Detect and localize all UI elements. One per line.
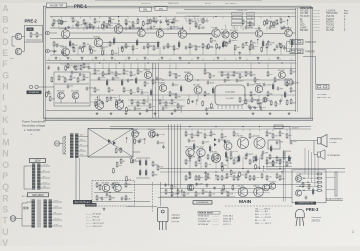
- svg-text:220: 220: [241, 175, 244, 177]
- resistor R128: [267, 91, 269, 97]
- ground symbol top band 9: [179, 57, 182, 60]
- junction node main 5: [242, 168, 243, 169]
- wire T1 secondary tap 1: [78, 136, 86, 138]
- capacitor C2: [86, 25, 89, 29]
- resistor R507: [102, 23, 104, 29]
- ground symbol regulator: [103, 208, 106, 211]
- svg-text:Secondary voltage: Secondary voltage: [22, 123, 46, 127]
- resistor R116: [274, 77, 276, 83]
- resistor R145: [99, 184, 101, 190]
- svg-text:AC+ —— OL 2: AC+ —— OL 2: [255, 213, 270, 216]
- transistor Q5: [138, 29, 146, 37]
- junction mainB 95: [215, 175, 216, 176]
- resistor R307: [308, 184, 310, 190]
- resistor R103: [115, 71, 117, 77]
- connector REC OUT: [316, 85, 329, 90]
- svg-text:P: P: [2, 171, 8, 181]
- capacitor C130: [157, 140, 160, 144]
- resistor R527: [210, 37, 212, 43]
- wire mid drop 9: [152, 63, 154, 70]
- transistor Q8: [212, 29, 220, 37]
- wire mid link 1: [128, 99, 185, 101]
- wire main drop mid 3: [215, 157, 217, 169]
- capacitor C261: [101, 101, 104, 105]
- wire main drop 5: [210, 129, 212, 132]
- svg-text:U: U: [2, 227, 8, 237]
- power transistor Q58: [254, 187, 264, 197]
- transistor Q12: [231, 32, 238, 39]
- svg-text:———: ———: [313, 25, 321, 27]
- svg-text:47/25: 47/25: [249, 154, 254, 156]
- capacitor C67: [247, 82, 250, 86]
- wire vertical drop 22: [195, 25, 197, 29]
- resistor R31: [147, 43, 149, 49]
- svg-text:———: ———: [313, 22, 321, 24]
- wire mid drop 3: [108, 63, 110, 70]
- resistor R409: [253, 156, 255, 162]
- wire mainB stub 101: [263, 166, 265, 171]
- svg-text:PARTS NOTE: PARTS NOTE: [199, 212, 213, 215]
- wire signal net 9: [220, 32, 255, 34]
- resistor R157: [177, 103, 179, 109]
- svg-text:330: 330: [223, 75, 226, 77]
- svg-text:330: 330: [292, 91, 295, 93]
- capacitor C68: [263, 82, 266, 86]
- capacitor C105: [236, 78, 239, 82]
- electrolytic capacitor C140: [193, 143, 195, 151]
- resistor R227: [249, 175, 251, 181]
- capacitor C129: [139, 138, 142, 142]
- capacitor C125: [262, 150, 265, 154]
- wire mid rail 2: [90, 68, 296, 70]
- svg-text:10/16: 10/16: [74, 72, 79, 74]
- svg-text:CB —— 250V.4: CB —— 250V.4: [255, 208, 271, 210]
- svg-text:DRIVER BD: DRIVER BD: [197, 202, 209, 204]
- svg-text:PRE-3: PRE-3: [306, 207, 319, 212]
- svg-text:0.01: 0.01: [227, 80, 231, 82]
- wire T2 primary a: [28, 165, 32, 167]
- capacitor C127: [283, 150, 286, 154]
- wire mid drop 5: [123, 63, 125, 70]
- ground symbol top band 5: [111, 57, 114, 60]
- wire EQ board rail: [55, 83, 89, 85]
- ground symbol mid 6: [171, 112, 174, 115]
- resistor R16: [189, 19, 191, 25]
- wire mid drop low 1: [99, 95, 101, 101]
- svg-text:EQ AMP: EQ AMP: [226, 97, 235, 100]
- wire vertical bus 4: [177, 124, 179, 197]
- junction botA 113: [181, 190, 182, 191]
- resistor R152: [143, 99, 145, 105]
- capacitor C204: [75, 23, 78, 27]
- capacitor C11: [56, 43, 59, 47]
- capacitor C290: [156, 133, 159, 137]
- resistor R350: [165, 189, 167, 195]
- ground symbol mainA 87: [138, 140, 141, 143]
- wire to ground bus 8: [147, 47, 149, 55]
- electrolytic capacitor C35: [222, 41, 224, 49]
- svg-text:560: 560: [173, 102, 176, 104]
- transistor Q53 driver: [211, 153, 220, 162]
- plug P1: [54, 141, 59, 146]
- wire main drop mid 1: [189, 157, 191, 169]
- svg-text:4.7/50: 4.7/50: [233, 151, 238, 153]
- resistor R303: [316, 185, 322, 187]
- wire tape link: [286, 42, 288, 52]
- speaker A icon: [318, 135, 328, 148]
- wire selector lead 4: [247, 26, 249, 29]
- resistor R108: [152, 79, 154, 85]
- resistor R30: [132, 45, 134, 51]
- resistor R100: [94, 69, 96, 75]
- svg-text:2SC1000: 2SC1000: [101, 183, 109, 185]
- resistor R1: [53, 19, 55, 25]
- svg-text:———: ———: [313, 10, 321, 12]
- transistor Q28: [279, 72, 286, 79]
- svg-text:120: 120: [235, 134, 238, 136]
- wire vertical drop 23: [202, 26, 204, 30]
- wire mid drop 7: [137, 63, 139, 70]
- resistor R152: [152, 171, 154, 177]
- svg-text:POWER SW: POWER SW: [198, 221, 211, 223]
- capacitor C224: [165, 19, 168, 23]
- label box SPEAKER: [27, 91, 42, 95]
- capacitor C123: [230, 150, 233, 154]
- svg-text:100: 100: [255, 159, 258, 161]
- wire to speaker B: [314, 141, 318, 155]
- wire mid drop low 6: [197, 95, 199, 101]
- svg-text:0.22: 0.22: [149, 110, 153, 112]
- wire main drop 13: [279, 129, 281, 132]
- resistor R218: [266, 159, 268, 165]
- svg-text:D: D: [2, 37, 8, 47]
- svg-text:2SA733: 2SA733: [326, 15, 335, 18]
- svg-text:3: 3: [352, 230, 354, 234]
- wire to ground bus 11: [189, 47, 191, 55]
- svg-text:2SC945: 2SC945: [236, 136, 243, 138]
- resistor R10: [125, 19, 127, 25]
- wire to ground bus 16: [266, 47, 268, 55]
- junction node top 9: [288, 16, 289, 17]
- wire to ground bus 3: [77, 47, 79, 55]
- resistor R407: [237, 156, 239, 162]
- resistor R414: [189, 173, 191, 179]
- svg-text:V: V: [2, 238, 8, 246]
- wire vertical drop 33: [288, 27, 290, 31]
- capacitor C128: [290, 140, 293, 144]
- wire main lower rail 3: [160, 196, 235, 198]
- ground symbol top band 4: [95, 57, 98, 60]
- transistor Q24: [115, 101, 124, 110]
- resistor R530: [223, 40, 225, 46]
- svg-text:10/16: 10/16: [210, 82, 215, 84]
- wire mid rail upper: [46, 62, 296, 64]
- svg-text:0.01: 0.01: [70, 86, 74, 88]
- svg-text:100/10: 100/10: [173, 27, 179, 29]
- wire midC stub 67: [180, 108, 182, 113]
- svg-text:100/10: 100/10: [146, 46, 152, 48]
- resistor R201: [30, 32, 32, 38]
- svg-text:2SC458: 2SC458: [131, 129, 138, 131]
- resistor R117: [286, 81, 288, 87]
- junction midC 67: [181, 107, 182, 108]
- svg-text:PRE-2: PRE-2: [25, 18, 38, 23]
- svg-text:C: C: [2, 26, 9, 36]
- transistor Q7: [178, 30, 186, 38]
- svg-text:390: 390: [292, 72, 295, 74]
- resistor R217: [249, 159, 251, 165]
- wire vertical drop 7: [89, 25, 91, 29]
- resistor R212: [185, 159, 187, 165]
- svg-text:SPEAKER: SPEAKER: [29, 91, 40, 94]
- wire vertical drop 25: [225, 25, 227, 29]
- resistor R211: [286, 133, 288, 139]
- wire main drop 12: [272, 129, 274, 132]
- transistor Q9: [222, 31, 229, 38]
- svg-text:R.FUSE: R.FUSE: [300, 10, 309, 12]
- grid row letters A-V: [2, 3, 9, 248]
- svg-text:10/16: 10/16: [89, 88, 94, 90]
- transistor Q30: [159, 84, 166, 91]
- resistor R598: [239, 171, 241, 177]
- lead ticks on ground bus: [49, 58, 291, 60]
- svg-text:SPK SELECT: SPK SELECT: [225, 3, 238, 5]
- IC U1 pins: [218, 105, 242, 109]
- svg-text:120: 120: [145, 24, 148, 26]
- wire topA stub 9: [118, 21, 120, 26]
- resistor R582: [290, 99, 292, 105]
- resistor R141: [125, 182, 127, 188]
- svg-text:115V: 115V: [34, 159, 40, 163]
- ground symbol top band 3: [81, 57, 84, 60]
- capacitor C100: [134, 106, 137, 110]
- resistor R548: [80, 64, 82, 70]
- resistor R421: [253, 175, 255, 181]
- svg-text:L: L: [2, 126, 8, 136]
- resistor R586: [134, 138, 136, 144]
- transformer T1 core: [70, 134, 78, 159]
- resistor R163: [251, 97, 253, 103]
- junction midC 70: [196, 99, 197, 100]
- svg-text:220P: 220P: [198, 183, 203, 185]
- junction pre3 row 2: [303, 177, 304, 178]
- wire vertical drop 5: [77, 26, 79, 30]
- wire main drop mid 8: [279, 157, 281, 169]
- transistor Q6: [156, 30, 164, 38]
- ground symbol mid 2: [110, 112, 113, 115]
- capacitor C161: [305, 195, 308, 199]
- lead ticks on B+ rail: [52, 17, 290, 19]
- resistor R578: [270, 100, 272, 106]
- wire vertical drop 1: [53, 25, 55, 29]
- transistor Q42 regulator: [114, 184, 122, 192]
- connector speaker impedance: [29, 85, 38, 88]
- resistor R146: [112, 182, 114, 188]
- capacitor C280: [279, 99, 282, 103]
- wire vertical drop 32: [280, 26, 282, 30]
- wire main drop 10: [259, 129, 261, 132]
- svg-text:K: K: [2, 115, 9, 125]
- resistor R571: [202, 100, 204, 106]
- diode D13: [224, 140, 227, 143]
- svg-text:M: M: [2, 138, 9, 148]
- resistor R151: [137, 101, 139, 107]
- svg-text:ANODE TOP: ANODE TOP: [50, 4, 64, 7]
- capacitor C8: [245, 25, 248, 29]
- svg-text:N: N: [2, 149, 8, 159]
- wire to ground bus 17: [280, 47, 282, 55]
- svg-text:4.7/50: 4.7/50: [124, 46, 129, 48]
- PRE-3 board outline: [292, 170, 326, 203]
- resistor R225: [221, 175, 223, 181]
- wire mid drop 2: [102, 63, 104, 70]
- ground symbol topA 10: [125, 23, 128, 26]
- svg-text:TONE DEFEAT: TONE DEFEAT: [186, 15, 201, 18]
- wire signal net 1: [50, 27, 140, 29]
- wire mains to T3 b: [22, 219, 32, 227]
- svg-text:———: ———: [313, 27, 321, 29]
- svg-text:220: 220: [288, 163, 291, 165]
- svg-text:220: 220: [96, 89, 99, 91]
- label box HEATSINK: [85, 203, 97, 207]
- svg-text:4.7/50: 4.7/50: [144, 92, 149, 94]
- resistor R405: [226, 156, 228, 162]
- wire vertical drop 15: [147, 27, 149, 31]
- resistor R518: [121, 46, 123, 52]
- resistor R35: [189, 43, 191, 49]
- resistor R17: [195, 22, 197, 28]
- wire selector lead 1: [232, 26, 234, 29]
- junction node top 6: [182, 27, 183, 28]
- electrolytic capacitor C141: [209, 145, 211, 153]
- wire bottom long rail: [158, 197, 292, 199]
- transistor Q3: [114, 25, 123, 34]
- capacitor C90: [101, 196, 104, 200]
- svg-text:SYSTEM: SYSTEM: [317, 94, 327, 96]
- resistor R354: [195, 191, 197, 197]
- capacitor C291: [162, 145, 165, 149]
- wire topE stub 43: [291, 46, 293, 51]
- resistor R519: [137, 18, 139, 24]
- resistor R229: [279, 175, 281, 181]
- wire J1 to Q1: [50, 32, 58, 34]
- wire T3 tap 4: [52, 219, 62, 221]
- capacitor C62: [127, 78, 130, 82]
- wire mid drop low 7: [258, 95, 260, 101]
- svg-text:270: 270: [268, 177, 271, 179]
- svg-text:WZ090: WZ090: [326, 22, 334, 24]
- svg-text:SDS-3 1: SDS-3 1: [223, 221, 232, 223]
- svg-text:47/25: 47/25: [177, 109, 182, 111]
- wire T2 primary loop: [24, 166, 28, 189]
- transformer T1 windings: [65, 136, 67, 154]
- wire PRE-2 input loop: [12, 37, 15, 47]
- svg-text:2SC1000: 2SC1000: [268, 181, 276, 183]
- svg-text:0.047: 0.047: [115, 77, 120, 79]
- svg-text:———: ———: [212, 221, 219, 223]
- wire signal net 13: [128, 54, 210, 56]
- svg-text:CKT.BR: CKT.BR: [300, 13, 309, 15]
- capacitor C103: [174, 108, 177, 112]
- svg-text:1S2473: 1S2473: [326, 19, 335, 21]
- resistor R521: [149, 18, 151, 24]
- capacitor C101: [146, 108, 149, 112]
- wire vertical bus 1: [168, 124, 170, 186]
- wire midC stub 70: [196, 100, 198, 105]
- wire main lower rail 1: [160, 188, 270, 190]
- resistor R612: [171, 184, 173, 190]
- wire pre3 row 4: [296, 185, 318, 187]
- resistor R576: [259, 102, 261, 108]
- preamp inner board frame right edge: [295, 8, 297, 112]
- resistor R516: [101, 50, 103, 56]
- transistor Q41 regulator: [102, 184, 110, 192]
- svg-text:SEMI NOTE: SEMI NOTE: [300, 7, 314, 10]
- resistor R129: [290, 87, 292, 93]
- svg-text:0.22: 0.22: [165, 108, 169, 110]
- svg-text:8 OHM: 8 OHM: [330, 142, 337, 144]
- wire mid drop 15: [290, 63, 292, 70]
- resistor R404: [217, 154, 219, 160]
- electrolytic capacitor C83: [150, 89, 152, 97]
- svg-text:0.22: 0.22: [76, 66, 80, 68]
- svg-text:330: 330: [110, 72, 113, 74]
- wire Q202 collector: [22, 51, 25, 53]
- resistor R9: [109, 17, 111, 23]
- svg-text:2SC1312: 2SC1312: [196, 147, 204, 149]
- svg-text:AC ADJUSTMENT: AC ADJUSTMENT: [326, 198, 343, 201]
- resistor R554: [264, 20, 266, 26]
- wire main rail plus2: [110, 128, 311, 130]
- electrolytic filter capacitor C97: [139, 169, 141, 177]
- junction mainB 103: [281, 171, 282, 172]
- resistor R140: [96, 182, 98, 188]
- svg-text:47/25: 47/25: [168, 19, 173, 21]
- resistor R125: [175, 93, 177, 99]
- resistor R356: [209, 191, 211, 197]
- svg-text:120: 120: [281, 162, 284, 164]
- wire vertical drop 10: [109, 25, 111, 29]
- svg-text:47/25: 47/25: [239, 81, 244, 83]
- electrolytic capacitor C144: [255, 155, 257, 163]
- resistor R7: [94, 18, 96, 24]
- svg-text:270: 270: [72, 77, 75, 79]
- junction node main 1: [189, 126, 190, 127]
- regulator board dashed outline: [92, 181, 135, 207]
- wire pre3 feed 1: [304, 148, 306, 174]
- resistor R597: [230, 169, 232, 175]
- electrolytic capacitor C81: [121, 79, 123, 87]
- capacitor C316: [206, 183, 209, 187]
- wire vertical drop 28: [249, 25, 251, 29]
- junction node top 5: [159, 16, 160, 17]
- svg-text:100: 100: [145, 102, 148, 104]
- svg-text:0.0033: 0.0033: [266, 85, 272, 87]
- resistor R210: [279, 131, 281, 137]
- ground symbol topE 40: [273, 48, 276, 51]
- resistor R142: [96, 195, 98, 201]
- resistor R118: [290, 69, 292, 75]
- resistor R110: [175, 73, 177, 79]
- svg-text:390: 390: [200, 177, 203, 179]
- capacitor C60: [98, 76, 101, 80]
- svg-text:820: 820: [175, 21, 178, 23]
- wire vertical bus 2: [171, 124, 173, 197]
- connector label box ANODE TOP: [47, 3, 67, 7]
- wire vertical drop 20: [182, 26, 184, 30]
- wire connector to EQ board: [38, 86, 54, 88]
- resistor R224: [205, 175, 207, 181]
